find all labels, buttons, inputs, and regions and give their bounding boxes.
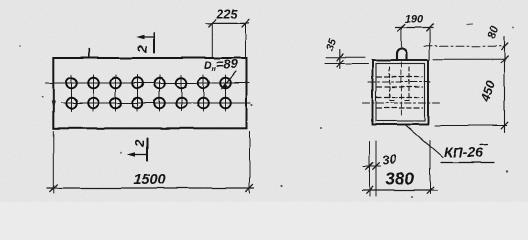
dimension 380: right extension line <box>429 140 431 194</box>
section outer rectangle <box>373 60 429 125</box>
dimension 30: left extension line a <box>369 141 371 196</box>
dimension 35: upper extension <box>326 56 365 58</box>
dimension 190: dim line <box>396 27 434 29</box>
dimension 35: upper tick <box>337 54 344 61</box>
tick above plate <box>88 49 90 59</box>
stray specks <box>467 23 473 26</box>
svg-text:30: 30 <box>381 151 397 167</box>
svg-text:КП-26: КП-26 <box>444 144 483 160</box>
top row centerline <box>46 82 250 84</box>
hidden hole band 2 upper edge <box>377 97 423 99</box>
section inner rectangle <box>376 64 425 122</box>
hole row 2 <box>66 98 231 109</box>
dimension 225: left tick <box>209 20 216 27</box>
dimension 190: left extension <box>400 28 402 39</box>
dimension 380: left tick <box>366 187 373 194</box>
leader line to mark <box>405 125 443 158</box>
tick at plate top level <box>501 56 508 63</box>
dimension 30: tick b <box>373 163 380 170</box>
column centerline 1 <box>71 75 73 111</box>
svg-text:1500: 1500 <box>133 172 165 188</box>
dimension 190: right tick <box>426 24 433 31</box>
bottom row centerline <box>61 102 251 104</box>
column centerline 5 <box>159 75 161 111</box>
overbar on 6 <box>480 143 487 146</box>
loop legs hidden inside: right <box>408 67 410 101</box>
plate outline <box>53 58 246 128</box>
leader arrow to hole <box>223 72 237 88</box>
dimension 30: tick a <box>366 163 373 170</box>
svg-text:2: 2 <box>134 44 149 53</box>
right side: loop-top level line <box>424 45 505 47</box>
dimension 380: dim line <box>362 189 438 191</box>
svg-text:Dн=89: Dн=89 <box>204 57 239 73</box>
section mark 2 bottom: bar <box>147 139 149 161</box>
column centerline 8 <box>225 75 227 111</box>
right side: vertical dimension line <box>504 37 506 133</box>
svg-text:190: 190 <box>405 14 424 26</box>
dimension 30: left extension line b <box>375 141 377 196</box>
column centerline 6 <box>181 75 183 111</box>
hole band 1 centerline <box>368 81 430 83</box>
vertical axis centerline <box>400 39 402 48</box>
dimension 225: dim line <box>206 22 249 24</box>
column centerline 7 <box>203 75 205 111</box>
dimension 225: left extension line <box>211 24 213 57</box>
small down arrow on plate left edge <box>52 88 54 106</box>
dimension 1500: right tick <box>246 184 253 191</box>
tick at loop-top level <box>501 43 508 50</box>
tick at plate bottom level <box>501 122 508 129</box>
dimension 35: lower extension <box>325 63 368 65</box>
dimension 190: left tick <box>398 24 405 31</box>
dimension 1500: left tick <box>50 184 57 191</box>
underline of mark label <box>441 162 494 164</box>
dimension 225: right extension line <box>245 24 247 58</box>
column centerline 4 <box>137 75 139 111</box>
lifting loop <box>397 49 407 61</box>
dimension 225: right tick <box>242 20 249 27</box>
dimension 190: right extension <box>429 28 431 61</box>
hidden hole band 2 lower edge <box>377 107 423 109</box>
dimension 1500: left extension line <box>52 131 54 193</box>
dimension 1500: right extension line <box>249 131 251 193</box>
hole band 2 centerline <box>363 102 440 104</box>
dimension 380: right tick <box>427 187 434 194</box>
loop legs hidden inside: left <box>389 67 391 101</box>
right side: plate top level line <box>434 58 506 60</box>
section mark 2 bottom: arrow <box>130 154 147 156</box>
dimension 1500: dim line <box>47 187 254 189</box>
section mark 2 top: arrow <box>139 36 153 38</box>
svg-text:380: 380 <box>385 169 414 189</box>
right side: plate bottom level line <box>435 125 507 127</box>
column centerline 3 <box>115 75 117 111</box>
dimension 30: dim line <box>364 165 381 167</box>
hidden hole band 1 upper edge <box>377 76 423 78</box>
svg-text:225: 225 <box>216 8 239 22</box>
section mark 2 top: bar <box>153 33 155 52</box>
column centerline 2 <box>93 75 95 111</box>
hidden hole band 1 lower edge <box>377 86 423 88</box>
hole row 1 <box>66 78 231 89</box>
dimension 35: lower tick <box>337 60 344 67</box>
dimension 35: dim line <box>339 50 341 69</box>
svg-text:2: 2 <box>132 139 147 148</box>
